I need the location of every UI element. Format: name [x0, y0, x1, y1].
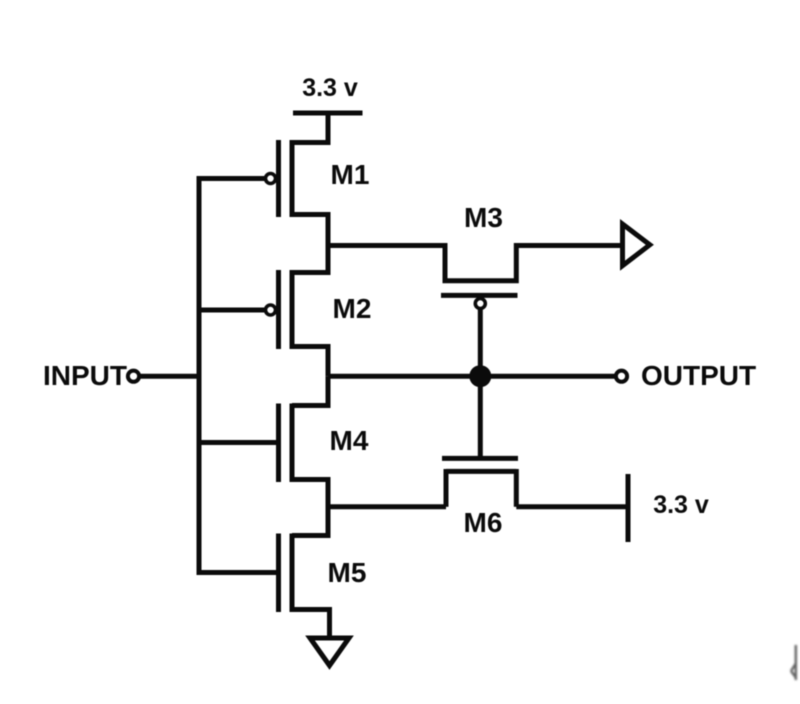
output junction dot [469, 365, 491, 387]
transistor M5 (NMOS) channel bar [290, 534, 295, 613]
transistor M3 gate bubble [475, 299, 485, 309]
svg-text:M5: M5 [328, 557, 367, 588]
wire node A to M2 drain [292, 246, 328, 273]
transistor M5 gate bar [276, 534, 281, 613]
svg-text:INPUT: INPUT [43, 360, 127, 391]
svg-text:3.3 v: 3.3 v [302, 74, 358, 102]
transistor M1 gate bar [276, 140, 281, 217]
input terminal circle [128, 371, 139, 382]
transistor M6 (horizontal NMOS) gate bar [442, 456, 518, 461]
ground symbol [310, 638, 349, 666]
wire M2 source to node B [292, 347, 328, 377]
wire bus to M1 gate [199, 176, 266, 181]
wire input terminal to bus [139, 374, 201, 379]
wire M3 drain to buffer triangle [516, 243, 621, 248]
3.3v supply bar [626, 474, 631, 542]
transistor M1 gate bubble [266, 174, 276, 184]
wire bus to M4 gate [199, 440, 279, 445]
svg-text:M4: M4 [330, 425, 369, 456]
transistor M4 (NMOS) channel bar [290, 404, 295, 483]
transistor M6 right terminal [514, 469, 519, 507]
transistor M3 (horizontal PMOS) source/drain path [445, 243, 516, 281]
wire VDD to M1 drain [292, 113, 328, 143]
transistor M2 (PMOS) channel bar [290, 270, 295, 349]
node C: wire to M6 [326, 504, 447, 509]
wire output node to M6 gate [478, 376, 483, 458]
svg-text:M2: M2 [333, 293, 372, 324]
transistor M6 channel / source-drain path [446, 469, 516, 474]
wire node B to M4 drain [292, 376, 328, 405]
wire M5 source to ground [292, 610, 330, 637]
transistor M1 (PMOS) channel bar [290, 140, 295, 217]
svg-text:M6: M6 [464, 507, 503, 538]
wire bus to M5 gate [199, 570, 279, 575]
svg-text:M1: M1 [331, 159, 370, 190]
VDD rail top [293, 111, 363, 116]
wire M4 source to node C [292, 480, 328, 507]
node A: wire to M3 [326, 243, 446, 248]
transistor M6 left terminal [444, 469, 449, 507]
input gate bus vertical wire [197, 176, 202, 575]
transistor M2 gate bubble [266, 305, 276, 315]
output terminal circle [616, 371, 627, 382]
transistor M2 gate bar [276, 270, 281, 349]
buffer triangle symbol [623, 224, 650, 266]
wire node B to output node [328, 374, 616, 379]
transistor M3 gate bar [441, 293, 518, 298]
wire M3 gate to output node [478, 309, 483, 377]
wire M1 source to node A [292, 215, 328, 246]
svg-text:3.3 v: 3.3 v [653, 491, 709, 519]
wire node C to M5 drain [292, 507, 328, 536]
transistor M4 gate bar [276, 404, 281, 483]
wire M6 right terminal to 3.3v bar [516, 504, 628, 509]
wire bus to M2 gate [199, 308, 266, 313]
svg-text:M3: M3 [464, 202, 503, 233]
svg-text:OUTPUT: OUTPUT [641, 360, 756, 391]
edge artifact bottom right [791, 645, 796, 680]
